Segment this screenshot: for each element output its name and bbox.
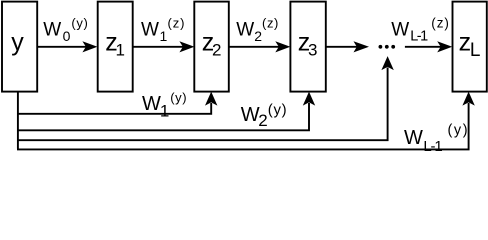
arrow dots to zL xyxy=(405,41,452,52)
svg-text:W1(z): W1(z) xyxy=(141,16,185,44)
wire bus2 to z3 xyxy=(17,92,315,131)
box y xyxy=(2,2,37,92)
wire bus3 to dots xyxy=(17,56,394,140)
wire drop from y box xyxy=(17,91,19,149)
svg-text:z1: z1 xyxy=(105,29,125,60)
arrow y to z1 xyxy=(38,41,98,52)
svg-text:z2: z2 xyxy=(202,29,222,60)
svg-text:y: y xyxy=(11,29,24,57)
arrow z3 to dots xyxy=(326,41,369,52)
box z1 xyxy=(98,2,133,92)
svg-text:W2(y): W2(y) xyxy=(241,101,288,130)
svg-text:z3: z3 xyxy=(298,29,318,60)
wire bus4 to zL xyxy=(17,92,475,150)
wire bus1 to z2 xyxy=(17,92,217,114)
box z2 xyxy=(194,2,229,92)
box z3 xyxy=(290,2,325,92)
svg-text:W1(y): W1(y) xyxy=(142,90,187,120)
dots ellipsis xyxy=(379,45,396,49)
arrow z2 to z3 xyxy=(229,41,290,52)
arrow z1 to z2 xyxy=(133,41,194,52)
svg-text:zL: zL xyxy=(459,29,481,62)
box zL xyxy=(453,2,487,92)
svg-text:W0(y): W0(y) xyxy=(43,16,88,44)
svg-text:WL-1(z): WL-1(z) xyxy=(391,16,449,45)
svg-text:W2(z): W2(z) xyxy=(236,16,279,44)
